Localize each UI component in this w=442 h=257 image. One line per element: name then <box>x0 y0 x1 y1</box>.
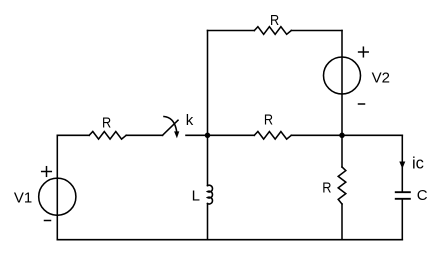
wire R4 to bottom rail <box>341 204 343 240</box>
wire bottom rail <box>57 239 402 241</box>
junction node B <box>339 133 345 139</box>
capacitor C bottom plate <box>396 198 410 200</box>
wire middle vertical from top rail to node A <box>207 31 209 136</box>
switch k arrowhead <box>174 131 179 138</box>
switch k blade <box>163 120 179 135</box>
plus sign of V2 <box>359 47 369 57</box>
wire from V1 top corner to resistor R1 <box>57 134 89 136</box>
junction node A <box>205 133 211 139</box>
svg-text:R: R <box>322 180 331 197</box>
resistor R4 (right vertical R) <box>338 167 346 204</box>
svg-text:V2: V2 <box>372 70 390 87</box>
wire right vertical from top rail through V2 to node B <box>341 31 343 136</box>
capacitor C top plate <box>396 191 410 193</box>
plus sign of V1 <box>42 167 52 177</box>
voltage source V2 <box>324 57 361 94</box>
wire inductor to bottom rail <box>207 204 209 240</box>
wire right branch down to capacitor <box>401 135 403 191</box>
voltage source V1 <box>39 178 76 215</box>
wire top rail left segment <box>208 30 255 32</box>
resistor R2 (top R) <box>254 27 291 35</box>
svg-text:L: L <box>192 187 200 204</box>
svg-text:ic: ic <box>412 155 424 173</box>
wire capacitor to bottom rail <box>401 200 403 240</box>
switch k actuation arc <box>164 117 177 132</box>
wire node B down to resistor R4 <box>341 135 343 167</box>
resistor R1 (left R) <box>89 132 126 140</box>
wire node A down to inductor <box>207 135 209 185</box>
svg-text:R: R <box>102 114 111 131</box>
current arrow ic <box>399 162 405 169</box>
wire node A to resistor R3 <box>208 134 255 136</box>
minus sign of V1 <box>45 220 51 222</box>
wire from switch to middle node <box>186 134 208 136</box>
wire from R1 to switch <box>126 134 162 136</box>
inductor L <box>208 185 213 204</box>
svg-text:V1: V1 <box>14 189 32 206</box>
minus sign of V2 <box>359 103 365 105</box>
wire R3 to node B <box>291 134 342 136</box>
wire node B to right branch corner <box>342 134 402 136</box>
resistor R3 (middle R) <box>254 132 291 140</box>
svg-text:C: C <box>417 187 428 204</box>
wire top rail right segment <box>291 30 342 32</box>
wire left vertical branch <box>56 135 58 239</box>
svg-text:R: R <box>264 112 273 129</box>
svg-text:R: R <box>270 12 279 29</box>
svg-text:k: k <box>186 112 194 129</box>
